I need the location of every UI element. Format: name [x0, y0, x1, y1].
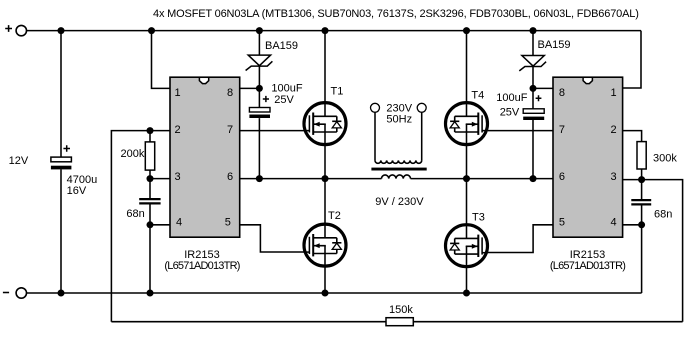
- wire U1 pin2 to RT node: [111, 131, 170, 322]
- wire U2 pin7 to T4 gate: [488, 130, 553, 132]
- capacitor C5 68n right: [631, 200, 651, 204]
- svg-text:25V: 25V: [274, 94, 294, 106]
- resistor R2 300k: [637, 142, 646, 169]
- wire U2 pin5 to T3 gate: [488, 225, 553, 253]
- wire U1 pin8 to diode/cap node: [240, 87, 260, 89]
- transistor T3: [446, 225, 488, 267]
- wire primary row right: [411, 178, 554, 180]
- svg-text:T2: T2: [328, 210, 341, 222]
- svg-text:200k: 200k: [121, 148, 145, 160]
- transistor T2: [304, 224, 346, 266]
- svg-text:300k: 300k: [653, 153, 677, 165]
- wire T2 drain: [324, 179, 326, 224]
- wire primary row left: [240, 178, 382, 180]
- wire U1 pin4 stub: [150, 224, 170, 226]
- svg-text:IR2153: IR2153: [184, 249, 219, 261]
- wire U1 pin7 to T1 gate: [240, 130, 304, 132]
- svg-text:1: 1: [610, 87, 616, 99]
- wire T1 source to phase node: [324, 146, 326, 179]
- wire U2 pin8 stub: [533, 87, 553, 89]
- svg-text:4x MOSFET 06N03LA (MTB1306, SU: 4x MOSFET 06N03LA (MTB1306, SUB70N03, 76…: [153, 8, 639, 20]
- svg-text:BA159: BA159: [538, 39, 571, 51]
- svg-text:68n: 68n: [654, 209, 672, 221]
- svg-text:7: 7: [559, 124, 565, 136]
- wire T3 source to ground rail: [466, 268, 468, 294]
- svg-text:3: 3: [610, 171, 616, 183]
- wire U2 pin1 from top rail: [623, 31, 641, 88]
- terminal + 12V: [5, 25, 26, 36]
- wire left BA159 / 100uF branch: [258, 31, 260, 179]
- svg-text:6: 6: [227, 171, 233, 183]
- svg-text:T3: T3: [472, 212, 485, 224]
- wire U1 pin3 stub: [150, 178, 170, 180]
- svg-text:100uF: 100uF: [496, 92, 527, 104]
- terminal - ground: [3, 288, 27, 298]
- transformer TR1 secondary winding: [375, 160, 422, 163]
- svg-text:5: 5: [225, 217, 231, 229]
- diode D2 BA159 right: [519, 56, 546, 71]
- wire T1 drain from top rail: [324, 31, 326, 102]
- svg-text:8: 8: [227, 87, 233, 99]
- junction dot pin2 left: [147, 127, 154, 134]
- svg-text:50Hz: 50Hz: [386, 114, 412, 126]
- svg-text:(L6571AD013TR): (L6571AD013TR): [550, 260, 625, 272]
- svg-text:4: 4: [176, 217, 182, 229]
- svg-text:7: 7: [227, 124, 233, 136]
- svg-text:2: 2: [174, 124, 180, 136]
- svg-text:2: 2: [610, 124, 616, 136]
- wire U1 pin1 from top rail: [152, 31, 171, 89]
- wire T2 source to ground rail: [324, 267, 326, 293]
- IC U1 IR2153 body: [170, 77, 240, 237]
- wire U2 pin3 row: [623, 180, 683, 322]
- wire secondary right terminal lead: [421, 112, 423, 160]
- resistor R3 150k: [386, 318, 413, 326]
- junction dots pin4 row: [147, 221, 646, 228]
- resistor R1 200k: [145, 142, 154, 170]
- wire 300k/68n branch right: [641, 169, 643, 293]
- wire T4 source to phase node: [466, 145, 468, 179]
- svg-text:IR2153: IR2153: [570, 249, 605, 261]
- wire U2 pin2 to 300k: [623, 131, 642, 142]
- svg-text:8: 8: [559, 87, 565, 99]
- transformer TR1 primary winding: [382, 175, 411, 179]
- svg-text:25V: 25V: [500, 107, 520, 119]
- svg-text:T1: T1: [331, 86, 344, 98]
- transformer TR1 core: [371, 168, 426, 171]
- wire 150k feedback line: [111, 321, 682, 323]
- svg-text:16V: 16V: [67, 185, 87, 197]
- svg-text:4: 4: [610, 217, 616, 229]
- terminal 230V left: [371, 103, 380, 112]
- transistor T1: [304, 103, 346, 145]
- svg-text:3: 3: [174, 171, 180, 183]
- svg-text:(L6571AD013TR): (L6571AD013TR): [164, 260, 239, 272]
- junction dots ground rail: [58, 290, 471, 297]
- svg-text:68n: 68n: [126, 208, 144, 220]
- capacitor C2 100uF left: [249, 96, 270, 118]
- wire secondary left terminal lead: [374, 112, 376, 160]
- svg-text:T4: T4: [471, 90, 484, 102]
- wire U1 pin5 to T2 gate: [240, 225, 304, 252]
- svg-text:1: 1: [174, 87, 180, 99]
- svg-text:150k: 150k: [389, 304, 413, 316]
- wire T3 drain: [466, 179, 468, 225]
- svg-text:9V / 230V: 9V / 230V: [375, 196, 424, 208]
- wire U2 pin4 stub: [623, 224, 642, 226]
- junction dots phase row: [147, 175, 646, 183]
- diode D1 BA159 left: [246, 55, 273, 70]
- IC U2 IR2153 body: [553, 77, 623, 237]
- wire bottom ground rail: [27, 292, 642, 294]
- svg-text:100uF: 100uF: [271, 83, 302, 95]
- junction dots pin8 row: [256, 85, 537, 92]
- capacitor C3 100uF right: [523, 95, 544, 120]
- transistor T4: [446, 103, 488, 145]
- capacitor C4 68n left: [139, 199, 160, 203]
- junction dots top rail: [58, 27, 537, 34]
- wire T4 drain from top rail: [466, 31, 468, 102]
- wire 4700u capacitor branch: [60, 31, 62, 293]
- svg-text:6: 6: [559, 171, 565, 183]
- svg-text:12V: 12V: [9, 155, 29, 167]
- terminal 230V right: [417, 103, 426, 112]
- wire 200k/68n branch left: [149, 131, 151, 293]
- wire right BA159 / 100uF branch: [532, 31, 534, 179]
- capacitor C1 4700u: [51, 145, 72, 169]
- wire top supply rail: [27, 30, 642, 32]
- svg-text:5: 5: [559, 217, 565, 229]
- svg-text:BA159: BA159: [265, 40, 298, 52]
